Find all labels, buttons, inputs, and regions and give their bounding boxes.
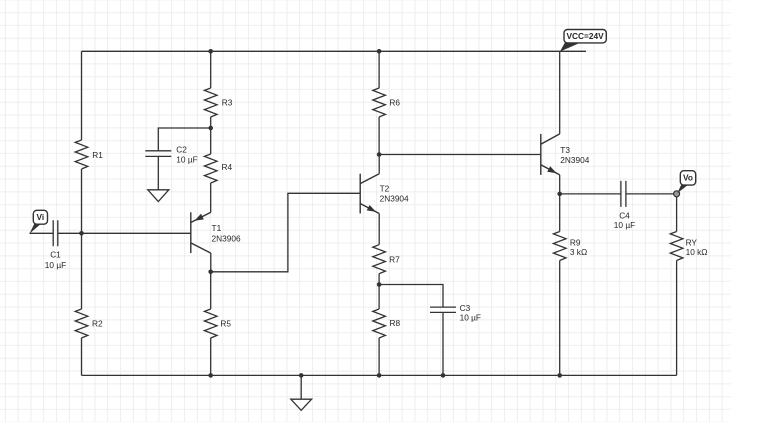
svg-text:2N3904: 2N3904: [380, 193, 409, 203]
svg-text:Vo: Vo: [683, 173, 693, 183]
wire left branch vertical (R1/R2 column): [81, 51, 83, 375]
svg-text:C4: C4: [619, 210, 630, 220]
power VCC=24V: [560, 30, 606, 52]
transistor T1 (PNP 2N3906): [191, 212, 211, 253]
wire R9 branch: [559, 194, 561, 376]
svg-text:10 µF: 10 µF: [45, 260, 66, 270]
wire T2 collector lead: [378, 155, 380, 174]
transistor T2 (NPN 2N3904): [360, 174, 379, 214]
svg-text:R9: R9: [570, 237, 581, 247]
svg-text:C1: C1: [50, 249, 61, 259]
wire input Vi to C1: [30, 232, 54, 234]
node Vo output: [674, 191, 680, 197]
capacitor C1: [53, 220, 58, 246]
node R3 top rail: [208, 49, 213, 54]
wire RY branch: [676, 194, 678, 376]
svg-text:R5: R5: [220, 318, 231, 328]
svg-text:C2: C2: [176, 144, 187, 154]
resistor R7: [373, 245, 386, 274]
svg-text:10 µF: 10 µF: [614, 220, 635, 230]
port Vi: [30, 210, 48, 233]
svg-text:C3: C3: [460, 303, 471, 313]
resistor R9: [553, 232, 566, 261]
wire T2 collector node to T3 base: [379, 154, 541, 156]
node R3/R4/C2: [208, 126, 213, 131]
wire top VCC rail: [82, 50, 587, 52]
svg-text:10 µF: 10 µF: [176, 154, 197, 164]
node T3 emitter: [557, 192, 562, 197]
wire bottom ground rail: [82, 374, 677, 376]
wire C1 to T1 base: [58, 232, 191, 234]
transistor T3 (NPN 2N3904): [541, 134, 560, 175]
node C3 ground: [441, 373, 446, 378]
node T1 collector: [208, 270, 213, 275]
wire T2 emitter to R7: [378, 214, 380, 245]
svg-text:R1: R1: [92, 150, 103, 160]
capacitor C4: [621, 181, 626, 207]
resistor R2: [75, 309, 88, 338]
ground under C2: [148, 190, 169, 202]
ground at bottom rail: [291, 399, 312, 410]
wire VCC drop to T3 collector: [559, 51, 561, 134]
wire C2 to ground stem: [157, 156, 159, 189]
svg-text:2N3906: 2N3906: [212, 233, 241, 243]
wire T3 emitter node to C4: [560, 193, 621, 195]
svg-text:10 µF: 10 µF: [460, 312, 481, 322]
svg-text:R4: R4: [222, 162, 233, 172]
resistor R5: [204, 309, 217, 338]
svg-text:R6: R6: [389, 98, 400, 108]
node C1/R1/R2: [79, 231, 84, 236]
capacitor C3: [430, 307, 456, 312]
svg-text:10 kΩ: 10 kΩ: [686, 247, 708, 257]
wire T3 emitter to node: [559, 175, 561, 194]
node R6/T2/T3 base: [377, 152, 382, 157]
svg-text:R3: R3: [222, 97, 233, 107]
svg-text:VCC=24V: VCC=24V: [567, 31, 605, 41]
node ground symbol: [299, 373, 304, 378]
node R6 top rail: [377, 49, 382, 54]
node R7/R8/C3: [377, 282, 382, 287]
node R5 ground: [208, 373, 213, 378]
resistor R1: [75, 140, 88, 169]
resistor R3: [204, 88, 217, 117]
node R9 ground: [557, 373, 562, 378]
node R8 ground: [377, 373, 382, 378]
resistor R8: [373, 309, 386, 338]
wire R7/R8 node to C3: [379, 285, 443, 308]
wire R7 to R8 and bottom: [378, 274, 380, 376]
wire R5 branch: [210, 272, 212, 376]
svg-text:R2: R2: [92, 318, 103, 328]
svg-text:T2: T2: [380, 184, 390, 194]
svg-text:3 kΩ: 3 kΩ: [570, 247, 587, 257]
resistor RY: [670, 232, 683, 261]
wire C3 to ground rail: [442, 312, 444, 375]
wire T1 collector down to node: [210, 253, 212, 272]
wire ground stem bottom: [300, 375, 302, 399]
svg-text:Vi: Vi: [37, 212, 45, 222]
port Vo: [677, 171, 696, 194]
wire R3/R4 column: [210, 51, 212, 212]
svg-text:RY: RY: [686, 237, 698, 247]
svg-text:T3: T3: [560, 145, 570, 155]
svg-text:T1: T1: [212, 223, 222, 233]
wire C2 branch from R3/R4 node: [158, 128, 210, 151]
resistor R4: [204, 154, 217, 183]
svg-text:R8: R8: [390, 318, 401, 328]
wire T1 collector node to T2 base: [211, 193, 361, 271]
resistor R6: [373, 88, 386, 117]
wire R6 column: [378, 51, 380, 154]
capacitor C2: [145, 151, 171, 157]
svg-text:2N3904: 2N3904: [560, 155, 589, 165]
wire C4 to Vo node: [626, 193, 677, 195]
svg-text:R7: R7: [389, 254, 400, 264]
